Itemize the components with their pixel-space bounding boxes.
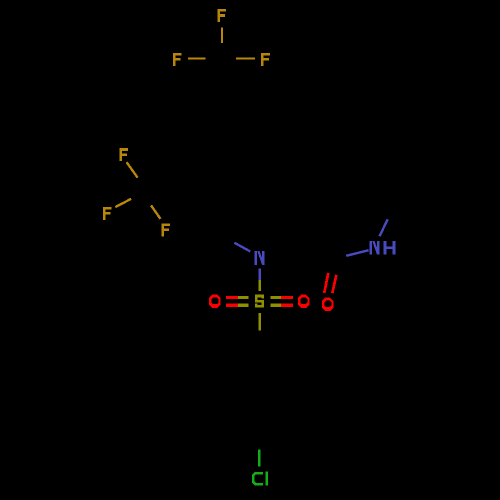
atom F6 [162,223,171,236]
wire C(=O)-N2 amide bond blue half [346,250,368,256]
bond S1=O2 right double bond, top line [270,296,281,299]
wire C12-Cl (chlorophenyl to Cl, green half-bond) [258,449,260,466]
atom N1 (sulfonamide nitrogen) [255,251,265,265]
bond S1=O2 right double bond, bottom line [270,304,281,307]
wire CH2-N1 (benzylic carbon to sulfonamide N, blue half) [234,243,250,252]
atom O3 (carbonyl oxygen) [322,298,334,312]
atom Cl (blocky C glyph) [252,472,263,486]
wire C8-F5 (second CF3 left half-bond) [115,199,131,207]
bond C=O3 carbonyl double bond, left line (red half) [324,273,328,293]
wire C8-F4 (second CF3 upper half-bond) [127,162,138,177]
bond S1=O1 left double bond, bottom line [226,304,238,307]
bond C=O3 carbonyl double bond, right line (red half) [332,275,336,293]
atom F3 [261,53,270,66]
wire C8-F6 (second CF3 lower half-bond) [151,205,161,219]
atom O2 (right sulfonyl oxygen) [298,295,310,309]
wire N2-CH3 blue half [380,219,388,236]
atom N2 H label [384,241,396,255]
atom F2 [173,53,182,66]
atom O1 (left sulfonyl oxygen) [209,295,221,309]
wire N1-S1 olive half [259,280,261,291]
atom F1 [218,9,227,22]
atom Cl (l bar) [266,471,268,485]
wire C7-F1 (top CF3 vertical half-bond) [221,28,223,44]
bond S1=O1 left double bond, top line [226,296,238,299]
wire S1-C9 (sulfonyl to chlorophenyl, olive half-bond down) [259,313,261,331]
wire N1-S1 blue half [259,269,261,281]
wire C7-F2 (top CF3 left half-bond) [188,57,205,59]
atom S1 (sulfonyl sulfur, blocky glyph) [255,295,264,308]
atom F4 [119,148,128,161]
atom N2 (amide N of NH) [370,241,380,255]
atom F5 [103,207,112,220]
wire C7-F3 (top CF3 right half-bond) [236,57,255,59]
